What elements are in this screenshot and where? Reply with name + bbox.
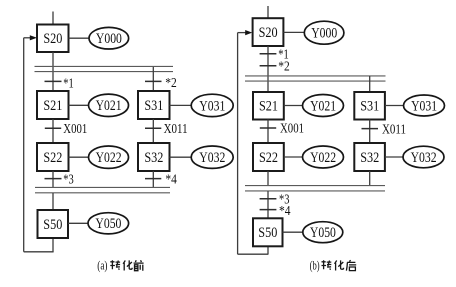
svg-text:*2: *2 <box>278 59 290 74</box>
svg-text:S32: S32 <box>360 150 379 166</box>
step box S22 (b) <box>253 143 284 171</box>
transition *4 tick (b) <box>260 209 277 211</box>
svg-text:S31: S31 <box>360 99 379 115</box>
caption (a) hanzi qian 前 <box>134 260 144 271</box>
transition *1 tick (a) <box>45 80 62 82</box>
wire S32 to Y032 (b) <box>385 156 404 158</box>
wire S21 to Y021 (a) <box>69 104 89 106</box>
step box S20 (b) <box>253 18 284 46</box>
wire S20 to split (b) <box>267 46 269 92</box>
wire S21 to S22 (a) <box>52 119 54 143</box>
svg-text:*3: *3 <box>63 173 73 188</box>
svg-text:(b): (b) <box>310 259 320 273</box>
svg-text:Y021: Y021 <box>310 98 336 114</box>
wire S31 to Y031 (a) <box>170 104 192 106</box>
svg-text:S21: S21 <box>259 99 278 115</box>
transition *2 tick (a) <box>145 80 162 82</box>
svg-text:Y022: Y022 <box>96 150 122 166</box>
arrow into S20 (a) <box>24 35 37 40</box>
output coil Y032 (a) <box>191 146 233 168</box>
transition X001 tick (a) <box>45 127 61 129</box>
output coil Y050 (b) <box>303 222 343 243</box>
transition *3 tick (a) <box>45 178 62 180</box>
svg-text:Y021: Y021 <box>96 98 122 114</box>
wire S31 to S32 (a) <box>152 119 154 143</box>
svg-text:Y050: Y050 <box>95 216 121 232</box>
svg-text:S20: S20 <box>43 31 62 47</box>
svg-text:S50: S50 <box>43 217 62 233</box>
parallel branch split double line (a) <box>35 66 174 71</box>
arrow into S20 (b) <box>238 30 253 35</box>
wire feedback loop bottom horizontal (b) <box>238 253 269 255</box>
wire feedback loop vertical (b) <box>237 33 239 255</box>
svg-text:Y000: Y000 <box>311 26 337 42</box>
wire S21 to S22 (b) <box>267 120 269 144</box>
wire S32 to join (b) <box>369 171 371 186</box>
transition X011 tick (a) <box>145 127 161 129</box>
wire S20 to Y000 (b) <box>283 31 304 33</box>
step box S50 (a) <box>38 210 69 238</box>
wire right branch stem (b) <box>369 76 371 92</box>
wire S32 to Y032 (a) <box>170 156 192 158</box>
parallel branch join double line (b) <box>245 186 385 191</box>
wire S20 to Y000 (a) <box>69 37 90 39</box>
caption (b) hanzi hou 后 <box>346 260 356 270</box>
output coil Y021 (b) <box>303 95 344 117</box>
svg-text:Y022: Y022 <box>310 150 336 166</box>
svg-text:X001: X001 <box>280 122 304 137</box>
wire S21 to Y021 (b) <box>284 105 303 107</box>
wire join to S50 (a) <box>52 193 54 210</box>
svg-text:X011: X011 <box>164 122 188 137</box>
wire S22 to join (a) <box>52 171 54 188</box>
svg-text:S22: S22 <box>259 150 278 166</box>
output coil Y050 (a) <box>88 213 129 234</box>
wire S31 to Y031 (b) <box>385 105 404 107</box>
svg-text:*2: *2 <box>165 76 177 91</box>
wire right branch stem (a) <box>152 67 154 91</box>
output coil Y032 (b) <box>403 146 444 168</box>
step box S50 (b) <box>253 218 283 246</box>
wire feedback loop vertical (a) <box>23 38 25 252</box>
wire stub below S50 (b) <box>267 246 269 254</box>
svg-text:*1: *1 <box>63 76 73 91</box>
caption (a) hanzi hua 化 <box>123 260 132 270</box>
wire S31 to S32 (b) <box>369 120 371 144</box>
svg-text:X001: X001 <box>63 122 87 137</box>
step box S21 (b) <box>253 92 284 120</box>
svg-text:Y031: Y031 <box>411 98 437 114</box>
svg-text:(a): (a) <box>97 259 107 273</box>
transition X011 tick (b) <box>362 128 379 130</box>
step box S20 (a) <box>37 25 69 53</box>
caption (b) hanzi zhuan 转 <box>322 260 332 270</box>
svg-text:*4: *4 <box>165 173 177 188</box>
caption (b) hanzi hua 化 <box>335 260 344 270</box>
step box S31 (a) <box>138 91 170 119</box>
wire join to S50 (b) <box>267 191 269 218</box>
output coil Y022 (b) <box>303 146 344 168</box>
output coil Y031 (a) <box>191 94 233 116</box>
transition *2 tick (b) <box>260 65 277 67</box>
step box S32 (a) <box>138 143 170 171</box>
wire S22 to join (b) <box>267 171 269 186</box>
wire S22 to Y022 (b) <box>284 156 303 158</box>
svg-text:S32: S32 <box>144 150 163 166</box>
svg-text:Y031: Y031 <box>199 98 225 114</box>
step box S32 (b) <box>354 143 385 171</box>
svg-text:S20: S20 <box>259 25 278 41</box>
wire S50 to Y050 (a) <box>68 222 88 224</box>
output coil Y000 (b) <box>304 21 344 44</box>
output coil Y000 (a) <box>89 27 129 49</box>
transition *4 tick (a) <box>145 178 161 180</box>
step box S31 (b) <box>354 92 385 120</box>
wire top stem into S20 (b) <box>267 6 269 18</box>
svg-text:Y000: Y000 <box>96 31 122 47</box>
parallel branch join double line (a) <box>35 187 170 192</box>
wire S22 to Y022 (a) <box>69 156 89 158</box>
svg-text:S50: S50 <box>258 225 277 241</box>
svg-text:X011: X011 <box>382 122 406 137</box>
output coil Y031 (b) <box>404 95 445 116</box>
step box S22 (a) <box>37 143 69 171</box>
svg-text:Y050: Y050 <box>310 225 336 241</box>
svg-text:Y032: Y032 <box>411 150 437 166</box>
caption (a) hanzi zhuan 转 <box>110 260 120 270</box>
wire S32 to join (a) <box>152 171 154 188</box>
svg-text:S21: S21 <box>43 98 62 114</box>
output coil Y022 (a) <box>89 146 129 168</box>
wire top stem into S20 (a) <box>52 12 54 25</box>
transition *1 tick (b) <box>260 53 277 55</box>
svg-text:*4: *4 <box>279 204 291 219</box>
wire feedback loop bottom horizontal (a) <box>24 251 54 253</box>
step box S21 (a) <box>37 91 69 119</box>
svg-text:Y032: Y032 <box>199 150 225 166</box>
wire S50 to Y050 (b) <box>283 231 303 233</box>
transition *3 tick (b) <box>260 198 277 200</box>
parallel branch split double line (b) <box>245 76 386 81</box>
transition X001 tick (b) <box>260 127 276 129</box>
wire stub below S50 (a) <box>52 238 54 252</box>
wire S20 to branch (a) <box>52 52 54 91</box>
output coil Y021 (a) <box>89 94 129 116</box>
svg-text:S22: S22 <box>43 150 62 166</box>
svg-text:S31: S31 <box>144 98 163 114</box>
